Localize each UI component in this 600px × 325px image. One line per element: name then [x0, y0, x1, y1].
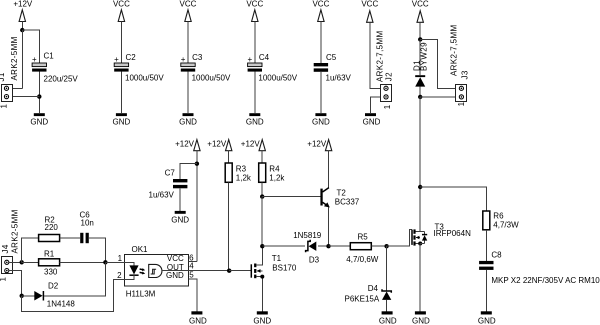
wire J1 pin 2 to junction: [9, 96, 40, 98]
svg-text:D2: D2: [48, 282, 59, 291]
node C1/J1-2 junction: [37, 94, 41, 98]
node R4/T2 base junction: [260, 194, 264, 198]
svg-text:R5: R5: [358, 233, 369, 242]
wire +12V down to OK1 pin 6: [196, 151, 198, 262]
power VCC (D1 branch): [412, 0, 429, 22]
capacitor C5 1u/63V: [314, 53, 352, 83]
wire OK1 pin 6 stub: [188, 260, 197, 262]
wire VCC to C2: [120, 22, 122, 64]
wire +12V to R4: [261, 151, 263, 163]
power +12V (input rail): [13, 0, 33, 21]
wire D4 to GND: [386, 300, 388, 311]
transistor T2 BC337: [320, 188, 359, 208]
wire C8 to GND: [485, 270, 487, 311]
svg-text:GND: GND: [113, 118, 131, 127]
wire bottom rail J4-2 to OK1 pin 2: [22, 279, 125, 311]
svg-text:GND: GND: [312, 118, 330, 127]
diode D3 1N5819: [293, 231, 322, 265]
svg-text:R3: R3: [236, 164, 247, 173]
ground below OK1 pin 5: [189, 311, 207, 325]
capacitor C3 1000u/50V: [181, 53, 231, 83]
svg-text:330: 330: [44, 267, 58, 276]
power VCC (C2): [113, 0, 130, 21]
wire node A to R1: [22, 261, 39, 263]
svg-text:1: 1: [383, 104, 392, 109]
opto LED inside OK1: [125, 262, 146, 279]
ground below C8: [478, 311, 496, 325]
wire C7 to GND: [179, 188, 181, 211]
capacitor C6 10n: [80, 211, 94, 244]
wire node A up and to R2: [22, 238, 39, 262]
svg-text:GND: GND: [189, 316, 207, 325]
svg-text:+12V: +12V: [13, 0, 33, 9]
capacitor C8 MKP X2: [479, 251, 600, 285]
ground below C1: [30, 113, 48, 126]
svg-text:C5: C5: [326, 53, 337, 62]
ground below C2: [113, 113, 131, 126]
svg-text:MKP X2 22NF/305V AC RM10: MKP X2 22NF/305V AC RM10: [491, 276, 600, 285]
svg-text:C1: C1: [44, 52, 55, 61]
svg-text:1000u/50V: 1000u/50V: [258, 74, 297, 83]
transistor T3 IRFP064N: [412, 222, 471, 245]
svg-text:D3: D3: [309, 255, 320, 264]
power VCC (C3): [180, 0, 197, 21]
wire R5 to D4 node: [371, 245, 386, 247]
node A (J4-1 / R1 / R2): [20, 260, 24, 264]
svg-text:1: 1: [457, 101, 466, 106]
svg-text:VCC: VCC: [361, 0, 378, 9]
wire OK1 pin 5 to GND: [188, 279, 197, 312]
connector J3 ARK2-7,5MM: [449, 24, 469, 106]
resistor R5 4,7/0,6W: [346, 233, 378, 264]
wire base node down to T1 drain node: [261, 197, 263, 247]
resistor R4 1,2k: [259, 163, 286, 182]
wire OK1 pin 4 (OUT) to gate node: [162, 270, 229, 272]
svg-text:J3: J3: [460, 70, 469, 79]
wire R6 to C8: [485, 230, 487, 261]
resistor R1 330: [39, 250, 60, 277]
svg-text:1000u/50V: 1000u/50V: [192, 74, 231, 83]
svg-text:1: 1: [118, 254, 123, 263]
svg-text:1,2k: 1,2k: [236, 173, 252, 182]
svg-text:P6KE15A: P6KE15A: [345, 294, 380, 303]
wire J4 pin 2 down to D2 node: [9, 271, 22, 296]
connector J2 ARK2-7,5MM: [375, 30, 393, 109]
node D1 anode / J3 pin 2: [418, 95, 422, 99]
node J4-2 / D2 anode: [20, 294, 24, 298]
svg-text:T2: T2: [337, 188, 347, 197]
node B (R1 / R2C6 / D2 cathode / OK1-1): [103, 260, 107, 264]
power +12V (T2 collector): [307, 139, 332, 150]
svg-text:OK1: OK1: [132, 245, 149, 254]
svg-text:4: 4: [189, 261, 194, 270]
node R5/D4/T3 gate junction: [384, 244, 388, 248]
wire R3 down to gate node: [228, 182, 230, 270]
wire T3 drain up (from D1 node): [419, 187, 421, 232]
svg-text:1u/63V: 1u/63V: [149, 191, 175, 200]
svg-text:GND: GND: [363, 118, 381, 127]
ground below C4: [246, 113, 264, 126]
svg-text:GND: GND: [379, 316, 397, 325]
ground below T3: [412, 311, 430, 325]
resistor R2 220: [39, 215, 60, 241]
svg-text:ARK2-5MM: ARK2-5MM: [10, 209, 19, 253]
wire D3 to emitter node: [318, 245, 329, 247]
wire node down to D4: [386, 246, 388, 291]
node T2 emitter / D3 / R5 junction: [326, 244, 330, 248]
connector J4 ARK2-5MM: [0, 209, 19, 281]
power +12V (R3): [207, 140, 232, 151]
capacitor C7 1u/63V: [149, 169, 188, 200]
svg-text:D4: D4: [368, 284, 379, 293]
wire junction over to J3 pin 1: [420, 39, 455, 88]
power +12V (R4): [241, 140, 266, 151]
svg-text:C3: C3: [192, 53, 203, 62]
wire R4 to base node: [261, 182, 263, 196]
capacitor C2 1000u/50V: [114, 53, 164, 83]
connector J1 ARK2-5MM: [0, 36, 19, 108]
svg-text:R6: R6: [493, 211, 504, 220]
wire VCC to C4: [254, 22, 256, 64]
resistor R3 1,2k: [225, 163, 252, 182]
wire C6 to node B: [89, 238, 106, 262]
svg-text:+12V: +12V: [241, 140, 261, 149]
wire C2 to GND: [120, 72, 122, 114]
svg-text:+12V: +12V: [307, 139, 327, 148]
wire node to J3 pin 2: [420, 96, 455, 98]
ground below J2: [363, 113, 381, 126]
svg-text:+12V: +12V: [207, 140, 227, 149]
wire +12V arrow to junction: [21, 22, 23, 31]
wire gate node to T3: [387, 230, 412, 247]
svg-text:1: 1: [0, 104, 8, 109]
ground below D4: [379, 311, 397, 325]
svg-text:R4: R4: [269, 164, 280, 173]
wire +12V to R3: [228, 151, 230, 163]
wire C3 to GND: [187, 72, 189, 114]
diode D4 P6KE15A: [345, 284, 392, 303]
node +12V junction: [20, 28, 24, 32]
svg-text:VCC: VCC: [312, 0, 329, 9]
svg-text:GND: GND: [478, 316, 496, 325]
wire gate node to T1: [229, 270, 251, 272]
wire D1 to lower node: [419, 87, 421, 97]
svg-text:1,2k: 1,2k: [269, 173, 285, 182]
wire +12V to T2 collector: [328, 151, 330, 188]
wire node down to T3 drain branch: [419, 97, 421, 187]
node +12V/C7 junction: [195, 162, 199, 166]
svg-text:IRFP064N: IRFP064N: [434, 229, 472, 238]
wire R2 to C6: [60, 237, 81, 239]
svg-text:GND: GND: [171, 215, 189, 224]
ground below C7: [171, 211, 189, 225]
ground below T1: [253, 311, 271, 325]
svg-text:C4: C4: [259, 53, 270, 62]
svg-text:J1: J1: [0, 72, 6, 81]
wire C5 to GND: [320, 72, 322, 113]
wire drain node over to R6: [420, 187, 486, 211]
svg-text:VCC: VCC: [246, 0, 263, 9]
svg-text:ARK2-7,5MM: ARK2-7,5MM: [375, 30, 384, 82]
wire junction to C7: [180, 164, 197, 179]
power VCC (J2): [361, 0, 378, 22]
svg-text:ARK2-5MM: ARK2-5MM: [10, 36, 19, 80]
capacitor C4 1000u/50V: [248, 53, 298, 83]
svg-text:GND: GND: [246, 118, 264, 127]
wire drain node to D3: [262, 245, 305, 247]
svg-text:GND: GND: [30, 118, 48, 127]
ground below C5: [312, 113, 330, 126]
wire D2 anode from node: [22, 295, 35, 297]
svg-text:220u/25V: 220u/25V: [44, 75, 79, 84]
svg-text:VCC: VCC: [412, 0, 429, 9]
wire T3 source to GND: [419, 244, 421, 312]
wire R1 to node B: [60, 261, 106, 263]
svg-text:10n: 10n: [81, 218, 94, 227]
svg-text:1N4148: 1N4148: [47, 299, 76, 308]
wire T2 emitter down: [328, 207, 330, 246]
svg-text:4,7/0,6W: 4,7/0,6W: [346, 255, 378, 264]
svg-text:BYW29: BYW29: [420, 42, 429, 71]
power VCC (C4): [246, 0, 263, 21]
svg-text:C2: C2: [126, 53, 137, 62]
svg-text:220: 220: [45, 223, 59, 232]
wire J1 pin 1 to riser: [9, 87, 22, 89]
wire VCC to C3: [187, 22, 189, 64]
transistor T1 BS170: [251, 248, 297, 311]
wire J4 pin 1 to node A: [9, 261, 22, 263]
capacitor C1 220u/25V: [32, 52, 78, 84]
resistor R6 4,7/3W: [483, 211, 519, 230]
svg-text:C7: C7: [165, 169, 176, 178]
wire node to R5: [329, 245, 351, 247]
wire junction down to J1 pin 1: [21, 30, 23, 88]
svg-text:VCC: VCC: [113, 0, 130, 9]
svg-text:VCC: VCC: [180, 0, 197, 9]
svg-text:GND: GND: [412, 316, 430, 325]
node T3 drain / R6 branch junction: [418, 185, 422, 189]
svg-text:J2: J2: [385, 72, 394, 81]
svg-text:1N5819: 1N5819: [293, 231, 322, 240]
svg-text:4,7/3W: 4,7/3W: [493, 220, 519, 229]
optocoupler OK1 H11L3M: [117, 245, 194, 298]
svg-text:C8: C8: [491, 251, 502, 260]
node VCC/D1/J3 junction: [418, 37, 422, 41]
svg-text:ARK2-7,5MM: ARK2-7,5MM: [449, 24, 458, 76]
wire base node to T2: [262, 196, 320, 198]
svg-text:1u/63V: 1u/63V: [326, 74, 352, 83]
svg-text:1: 1: [0, 277, 8, 282]
svg-text:VCC: VCC: [167, 254, 184, 263]
diode D2 1N4148: [34, 282, 75, 309]
power VCC (C5): [312, 0, 329, 21]
svg-text:J4: J4: [1, 244, 10, 253]
wire J2 pin 2 to GND: [371, 97, 384, 113]
svg-text:GND: GND: [166, 271, 184, 280]
wire C1 to GND: [38, 72, 40, 114]
diode D1 BYW29: [413, 39, 429, 86]
svg-text:GND: GND: [253, 316, 271, 325]
wire VCC to J2 pin 1: [370, 22, 384, 88]
svg-text:R1: R1: [44, 250, 55, 259]
wire jog to C1: [22, 30, 39, 63]
node T1 drain / D3 junction: [260, 244, 264, 248]
wire node B to OK1 pin 1: [105, 261, 124, 263]
wire VCC to C5: [320, 22, 322, 64]
svg-text:T1: T1: [272, 254, 282, 263]
svg-text:GND: GND: [179, 118, 197, 127]
svg-text:1000u/50V: 1000u/50V: [125, 74, 164, 83]
wire C4 to GND: [254, 72, 256, 114]
svg-text:2: 2: [117, 271, 122, 280]
svg-text:BC337: BC337: [335, 198, 360, 207]
power +12V (OK1/C7 rail): [175, 140, 200, 151]
opto detector (schmitt) inside OK1: [149, 264, 162, 277]
svg-text:H11L3M: H11L3M: [126, 289, 156, 298]
svg-text:+12V: +12V: [175, 140, 195, 149]
wire D2 cathode up to node B: [44, 262, 105, 296]
node OUT/R3/T1 gate junction: [227, 269, 231, 273]
wire VCC to D1 junction: [419, 22, 421, 39]
ground below C3: [179, 113, 197, 126]
svg-text:BS170: BS170: [272, 263, 297, 272]
